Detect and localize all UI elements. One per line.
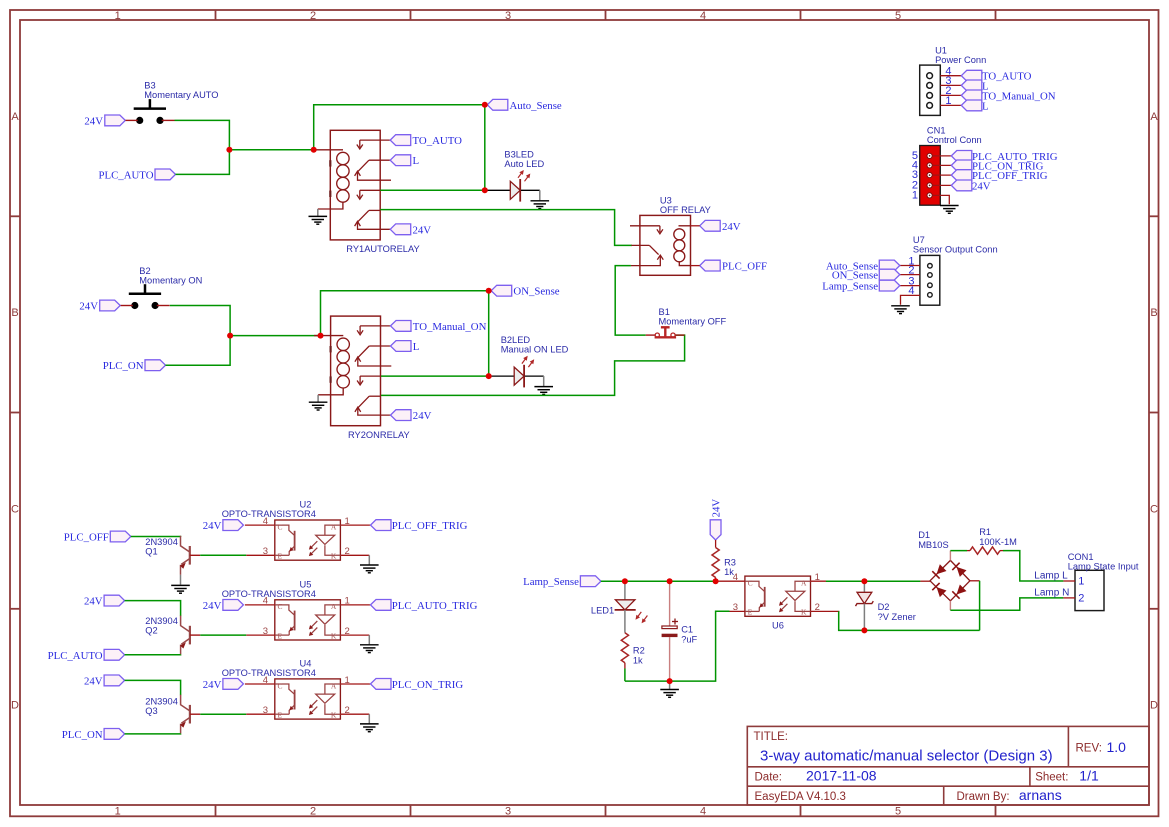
port 24V (CN1 pin2) bbox=[951, 180, 990, 192]
port TO_AUTO (U1 pin4) bbox=[961, 70, 1031, 82]
wire D1 top to R1 bbox=[950, 550, 967, 552]
svg-text:REV:: REV: bbox=[1076, 743, 1102, 755]
svg-text:L: L bbox=[413, 341, 420, 353]
capacitor C1 bbox=[662, 581, 678, 681]
svg-text:PLC_OFF_TRIG: PLC_OFF_TRIG bbox=[392, 520, 468, 532]
wire Lamp_Sense rail bbox=[601, 580, 717, 582]
svg-text:Control Conn: Control Conn bbox=[927, 135, 982, 145]
svg-text:A: A bbox=[1150, 111, 1158, 123]
port L (U1 pin1) bbox=[961, 100, 988, 112]
opto U6 bbox=[715, 572, 840, 617]
port PLC_OFF (U3) bbox=[691, 260, 768, 272]
port PLC_AUTO (Q2) bbox=[48, 649, 125, 661]
svg-text:Q2: Q2 bbox=[145, 625, 157, 635]
svg-text:TO_Manual_ON: TO_Manual_ON bbox=[982, 90, 1056, 102]
svg-text:24V: 24V bbox=[203, 679, 222, 691]
svg-text:Momentary ON: Momentary ON bbox=[139, 276, 202, 286]
wire RY2 to B1 loop bbox=[381, 335, 685, 395]
svg-text:Sheet:: Sheet: bbox=[1035, 772, 1068, 784]
wire junction to RY1 coil bbox=[229, 149, 313, 151]
svg-text:A: A bbox=[11, 111, 19, 123]
svg-text:24V: 24V bbox=[84, 675, 103, 687]
svg-text:24V: 24V bbox=[203, 600, 222, 612]
svg-text:1: 1 bbox=[115, 10, 121, 22]
ground RY1 coil bbox=[309, 216, 328, 224]
wire RY2 contact to LED junction bbox=[381, 375, 489, 377]
svg-text:1: 1 bbox=[1078, 576, 1084, 588]
svg-text:1: 1 bbox=[115, 806, 121, 818]
port PLC_AUTO bbox=[99, 169, 176, 181]
svg-text:Auto LED: Auto LED bbox=[504, 159, 544, 169]
pushbutton B2 bbox=[121, 284, 170, 309]
junction dots Auto_Sense bbox=[482, 102, 488, 194]
svg-text:arnans: arnans bbox=[1019, 787, 1062, 803]
svg-text:D: D bbox=[1150, 700, 1158, 712]
label U3 OFF RELAY bbox=[660, 195, 711, 215]
svg-text:Drawn By:: Drawn By: bbox=[957, 791, 1010, 803]
port TO_Manual_ON bbox=[391, 321, 487, 333]
ground U7 bbox=[891, 306, 910, 314]
svg-text:1k: 1k bbox=[633, 656, 643, 666]
svg-text:C: C bbox=[1150, 503, 1158, 515]
svg-text:Momentary AUTO: Momentary AUTO bbox=[144, 90, 218, 100]
port PLC_AUTO_TRIG (CN1 pin5) bbox=[951, 151, 1057, 163]
svg-text:2: 2 bbox=[1078, 593, 1084, 605]
label 2N3904 Q3 bbox=[145, 696, 178, 716]
wire D1 right to bottom rail bbox=[979, 581, 981, 631]
opto U4 bbox=[245, 675, 370, 720]
svg-text:B3: B3 bbox=[144, 81, 155, 91]
svg-text:100K-1M: 100K-1M bbox=[979, 537, 1017, 547]
svg-text:L: L bbox=[413, 155, 420, 167]
svg-text:Q1: Q1 bbox=[145, 547, 157, 557]
relay U3 OFF RELAY bbox=[630, 215, 691, 275]
label B1 Momentary OFF bbox=[659, 307, 727, 327]
port Auto_Sense (U7 pin1) bbox=[826, 260, 900, 272]
label C1 ?uF bbox=[681, 624, 697, 644]
LED B3LED with ground bbox=[485, 170, 549, 209]
label CON1 Lamp State Input bbox=[1068, 552, 1139, 572]
zener diode D2 bbox=[856, 581, 874, 630]
wire button B2 to RY2 junction bbox=[170, 306, 230, 336]
svg-text:Lamp L: Lamp L bbox=[1034, 571, 1068, 582]
svg-text:TO_Manual_ON: TO_Manual_ON bbox=[413, 321, 487, 333]
svg-text:TO_AUTO: TO_AUTO bbox=[413, 135, 463, 147]
port PLC_OFF bbox=[64, 531, 131, 543]
svg-text:OPTO-TRANSISTOR4: OPTO-TRANSISTOR4 bbox=[222, 509, 316, 519]
LED LED1 bbox=[615, 581, 648, 633]
svg-text:U2: U2 bbox=[300, 500, 312, 510]
svg-text:OPTO-TRANSISTOR4: OPTO-TRANSISTOR4 bbox=[222, 589, 316, 599]
svg-text:B1: B1 bbox=[659, 307, 670, 317]
port PLC_OFF_TRIG bbox=[371, 520, 468, 532]
svg-text:PLC_ON: PLC_ON bbox=[62, 729, 103, 741]
svg-text:3: 3 bbox=[505, 10, 511, 22]
port 24V (B2 row) bbox=[79, 300, 120, 312]
transistor Q2 bbox=[180, 616, 200, 655]
ground U2 pin2 bbox=[360, 555, 379, 573]
svg-text:D: D bbox=[11, 700, 19, 712]
resistor R3 bbox=[712, 540, 719, 581]
label U1 Power Conn bbox=[935, 46, 986, 66]
label B3LED Auto LED bbox=[504, 150, 544, 170]
label D1 MB10S bbox=[918, 530, 949, 550]
svg-text:Auto_Sense: Auto_Sense bbox=[510, 100, 562, 112]
wire 24V to Q2 collector bbox=[125, 601, 181, 617]
svg-text:Lamp State Input: Lamp State Input bbox=[1068, 561, 1139, 571]
svg-text:B2LED: B2LED bbox=[501, 335, 531, 345]
svg-text:4: 4 bbox=[700, 10, 706, 22]
svg-text:CN1: CN1 bbox=[927, 126, 946, 136]
svg-text:OFF RELAY: OFF RELAY bbox=[660, 205, 711, 215]
svg-text:5: 5 bbox=[895, 806, 901, 818]
ground CN1 bbox=[940, 206, 959, 214]
svg-text:U5: U5 bbox=[300, 579, 312, 589]
svg-text:TO_AUTO: TO_AUTO bbox=[982, 71, 1032, 83]
connector U1 bbox=[920, 65, 962, 115]
transistor Q1 bbox=[180, 536, 200, 575]
wire U3 to B1 bbox=[615, 266, 646, 336]
transistor Q3 bbox=[180, 695, 200, 734]
junction dots B2 net bbox=[227, 333, 323, 339]
svg-text:24V: 24V bbox=[84, 596, 103, 608]
svg-text:2017-11-08: 2017-11-08 bbox=[806, 768, 877, 784]
port PLC_ON_TRIG (CN1 pin4) bbox=[951, 160, 1043, 172]
ground Q1 bbox=[171, 585, 190, 593]
svg-text:LED1: LED1 bbox=[591, 606, 614, 616]
port 24V (U2) bbox=[203, 520, 244, 532]
svg-text:ON_Sense: ON_Sense bbox=[513, 286, 559, 298]
port 24V (RY2) bbox=[391, 410, 432, 422]
svg-text:PLC_OFF: PLC_OFF bbox=[722, 261, 767, 273]
port Lamp_Sense bbox=[523, 576, 601, 588]
opto U5 bbox=[245, 596, 370, 641]
port 24V (U3) bbox=[691, 220, 741, 232]
wire PLC_OFF to Q1 collector bbox=[131, 536, 181, 539]
port ON_Sense (U7 pin2) bbox=[832, 269, 900, 281]
svg-text:CON1: CON1 bbox=[1068, 552, 1094, 562]
wire U7 pin4 to ground bbox=[901, 295, 920, 304]
wire Q1 emitter to ground bbox=[180, 575, 182, 585]
svg-text:1.0: 1.0 bbox=[1107, 739, 1127, 755]
svg-text:2N3904: 2N3904 bbox=[145, 537, 178, 547]
relay RY2 bbox=[314, 316, 391, 426]
wire Auto_Sense riser down bbox=[484, 105, 486, 191]
svg-text:B: B bbox=[11, 307, 18, 319]
port 24V (B3 row) bbox=[84, 115, 125, 127]
svg-text:PLC_OFF: PLC_OFF bbox=[64, 532, 109, 544]
label U7 Sensor Output Conn bbox=[913, 235, 998, 255]
svg-text:24V: 24V bbox=[413, 410, 432, 422]
svg-text:1: 1 bbox=[945, 95, 951, 107]
svg-text:B2: B2 bbox=[139, 266, 150, 276]
svg-text:Lamp_Sense: Lamp_Sense bbox=[523, 576, 579, 588]
wire RY1 contact to LED junction bbox=[380, 189, 485, 191]
resistor R2 bbox=[621, 633, 628, 681]
wire D1 bottom to CON1 pin2 (Lamp N) bbox=[950, 598, 1063, 610]
port L (U1 pin3) bbox=[961, 80, 988, 92]
port 24V (U4) bbox=[203, 679, 244, 691]
LED B2LED with ground bbox=[489, 356, 553, 395]
port PLC_ON (Q3) bbox=[62, 729, 125, 741]
svg-text:PLC_AUTO: PLC_AUTO bbox=[99, 169, 154, 181]
svg-text:OPTO-TRANSISTOR4: OPTO-TRANSISTOR4 bbox=[222, 668, 316, 678]
svg-text:1/1: 1/1 bbox=[1079, 768, 1099, 784]
connector U7 bbox=[900, 255, 940, 305]
svg-text:?V Zener: ?V Zener bbox=[878, 612, 916, 622]
wire CN1 pin1 to ground bbox=[932, 195, 949, 204]
label D2 ?V Zener bbox=[878, 602, 916, 622]
port 24V (Q3 collector) bbox=[84, 675, 125, 687]
wire riser to Auto_Sense bbox=[314, 105, 485, 150]
svg-text:24V: 24V bbox=[84, 115, 103, 127]
bridge rectifier D1 bbox=[920, 551, 979, 611]
svg-text:EasyEDA V4.10.3: EasyEDA V4.10.3 bbox=[755, 791, 846, 803]
wire Q2 base to U5 pin3 bbox=[200, 634, 246, 636]
label R1 100K-1M bbox=[979, 527, 1017, 547]
label R3 1k bbox=[724, 558, 736, 578]
svg-text:Date:: Date: bbox=[755, 772, 783, 784]
ground U5 pin2 bbox=[360, 635, 379, 653]
port PLC_ON bbox=[103, 360, 166, 372]
svg-text:U4: U4 bbox=[300, 658, 312, 668]
junction dots D2 bbox=[861, 578, 867, 633]
svg-text:Q3: Q3 bbox=[145, 706, 157, 716]
svg-text:24V: 24V bbox=[203, 520, 222, 532]
label U2 OPTO-TRANSISTOR4 bbox=[222, 500, 316, 520]
svg-text:3: 3 bbox=[505, 806, 511, 818]
svg-text:Lamp N: Lamp N bbox=[1034, 588, 1069, 599]
wire 24V to Q3 collector bbox=[125, 680, 181, 695]
svg-text:2N3904: 2N3904 bbox=[145, 616, 178, 626]
svg-text:C: C bbox=[11, 503, 19, 515]
svg-text:24V: 24V bbox=[710, 499, 722, 518]
junction dots B3 net bbox=[226, 147, 316, 153]
svg-text:2: 2 bbox=[310, 10, 316, 22]
svg-text:TITLE:: TITLE: bbox=[754, 731, 789, 743]
svg-text:RY2ONRELAY: RY2ONRELAY bbox=[348, 430, 410, 440]
svg-text:R3: R3 bbox=[724, 558, 736, 568]
svg-text:MB10S: MB10S bbox=[918, 540, 949, 550]
wire bottom rail to U6 pin3 bbox=[625, 611, 730, 681]
svg-text:Power Conn: Power Conn bbox=[935, 55, 986, 65]
port Auto_Sense bbox=[487, 99, 562, 111]
wire riser to ON_Sense bbox=[321, 291, 489, 336]
wire RY1 to OFF relay U3 bbox=[380, 210, 632, 246]
svg-text:B3LED: B3LED bbox=[504, 150, 534, 160]
ground RY2 coil bbox=[309, 402, 328, 410]
label R2 1k bbox=[633, 646, 645, 666]
svg-text:Manual ON LED: Manual ON LED bbox=[501, 345, 569, 355]
port 24V (U5) bbox=[203, 600, 244, 612]
svg-text:PLC_AUTO: PLC_AUTO bbox=[48, 650, 103, 662]
wire Q1 base to U2 pin3 bbox=[200, 554, 246, 556]
svg-text:R2: R2 bbox=[633, 646, 645, 656]
port PLC_AUTO_TRIG (U5) bbox=[371, 600, 478, 612]
svg-text:1: 1 bbox=[912, 189, 918, 201]
wire Q3 base to U4 pin3 bbox=[200, 713, 246, 715]
wire PLC_ON to junction bbox=[166, 336, 231, 366]
wire ON_Sense riser down bbox=[488, 291, 490, 376]
svg-text:PLC_AUTO_TRIG: PLC_AUTO_TRIG bbox=[392, 600, 478, 612]
wire junction to RY2 coil bbox=[230, 335, 320, 337]
port 24V (RY1) bbox=[390, 224, 431, 236]
svg-text:U7: U7 bbox=[913, 235, 925, 245]
label U4 OPTO-TRANSISTOR4 bbox=[222, 658, 316, 678]
svg-text:2: 2 bbox=[310, 806, 316, 818]
port PLC_ON_TRIG (U4) bbox=[371, 679, 464, 691]
svg-text:L: L bbox=[982, 100, 989, 112]
label CN1 Control Conn bbox=[927, 126, 982, 146]
junction dot bottom rail bbox=[667, 678, 673, 684]
resistor R1 bbox=[967, 547, 1003, 554]
svg-text:C1: C1 bbox=[681, 624, 693, 634]
port L (RY2) bbox=[391, 341, 420, 353]
port TO_Manual_ON (U1 pin2) bbox=[961, 90, 1055, 102]
pushbutton B3 bbox=[126, 99, 175, 124]
wire PLC_AUTO to junction bbox=[176, 150, 230, 175]
svg-text:Sensor Output Conn: Sensor Output Conn bbox=[913, 245, 998, 255]
label B3 Momentary AUTO bbox=[144, 81, 218, 101]
TITLE BLOCK bbox=[747, 726, 1149, 805]
wire PLC_AUTO to Q2 emitter bbox=[125, 654, 181, 656]
svg-text:U6: U6 bbox=[772, 620, 784, 630]
port TO_AUTO bbox=[390, 135, 462, 147]
wire U6 pin2 to bottom rail bbox=[839, 611, 980, 630]
svg-text:B: B bbox=[1150, 307, 1157, 319]
label 2N3904 Q2 bbox=[145, 616, 178, 636]
junction dots lamp rail bbox=[622, 578, 719, 584]
svg-text:4: 4 bbox=[700, 806, 706, 818]
svg-text:PLC_ON_TRIG: PLC_ON_TRIG bbox=[392, 679, 464, 691]
wire U6 pin1 to D2 junction bbox=[826, 580, 921, 582]
svg-text:5: 5 bbox=[895, 10, 901, 22]
ground C1 bbox=[660, 681, 679, 697]
label B2 Momentary ON bbox=[139, 266, 202, 286]
svg-text:2N3904: 2N3904 bbox=[145, 696, 178, 706]
connector CN1 (red) bbox=[912, 146, 951, 206]
svg-text:24V: 24V bbox=[722, 221, 741, 233]
label U5 OPTO-TRANSISTOR4 bbox=[222, 579, 316, 599]
svg-text:24V: 24V bbox=[413, 224, 432, 236]
svg-text:R1: R1 bbox=[979, 527, 991, 537]
port 24V (Q2 collector) bbox=[84, 595, 125, 607]
port ON_Sense bbox=[491, 285, 560, 297]
svg-text:Lamp_Sense: Lamp_Sense bbox=[822, 281, 878, 293]
relay RY1 bbox=[314, 130, 391, 240]
label B2LED Manual ON LED bbox=[501, 335, 569, 355]
pushbutton B1 Momentary OFF (NC) bbox=[646, 327, 685, 337]
port Lamp_Sense (U7 pin3) bbox=[822, 280, 900, 292]
svg-text:RY1AUTORELAY: RY1AUTORELAY bbox=[346, 244, 419, 254]
svg-text:PLC_ON: PLC_ON bbox=[103, 360, 144, 372]
label 2N3904 Q1 bbox=[145, 537, 178, 557]
connector CON1 bbox=[1063, 570, 1104, 610]
port 24V (R3, vertical) bbox=[710, 499, 722, 540]
svg-text:Momentary OFF: Momentary OFF bbox=[659, 316, 727, 326]
svg-text:U1: U1 bbox=[935, 46, 947, 56]
svg-text:D2: D2 bbox=[878, 602, 890, 612]
port L (RY1) bbox=[390, 155, 419, 167]
ground U4 pin2 bbox=[360, 714, 379, 732]
svg-text:24V: 24V bbox=[972, 180, 991, 192]
wire button B3 to RY1 junction bbox=[175, 120, 230, 149]
port PLC_OFF_TRIG (CN1 pin3) bbox=[951, 170, 1047, 182]
svg-text:?uF: ?uF bbox=[681, 634, 697, 644]
svg-text:3-way automatic/manual selecto: 3-way automatic/manual selector (Design … bbox=[760, 748, 1053, 765]
svg-text:24V: 24V bbox=[79, 301, 98, 313]
wire PLC_ON to Q3 emitter bbox=[125, 733, 181, 735]
wire R1 to CON1 pin1 (Lamp L) bbox=[1003, 551, 1063, 581]
svg-text:U3: U3 bbox=[660, 195, 672, 205]
junction dots ON_Sense bbox=[486, 288, 492, 379]
opto U2 bbox=[245, 516, 370, 561]
svg-text:D1: D1 bbox=[918, 530, 930, 540]
